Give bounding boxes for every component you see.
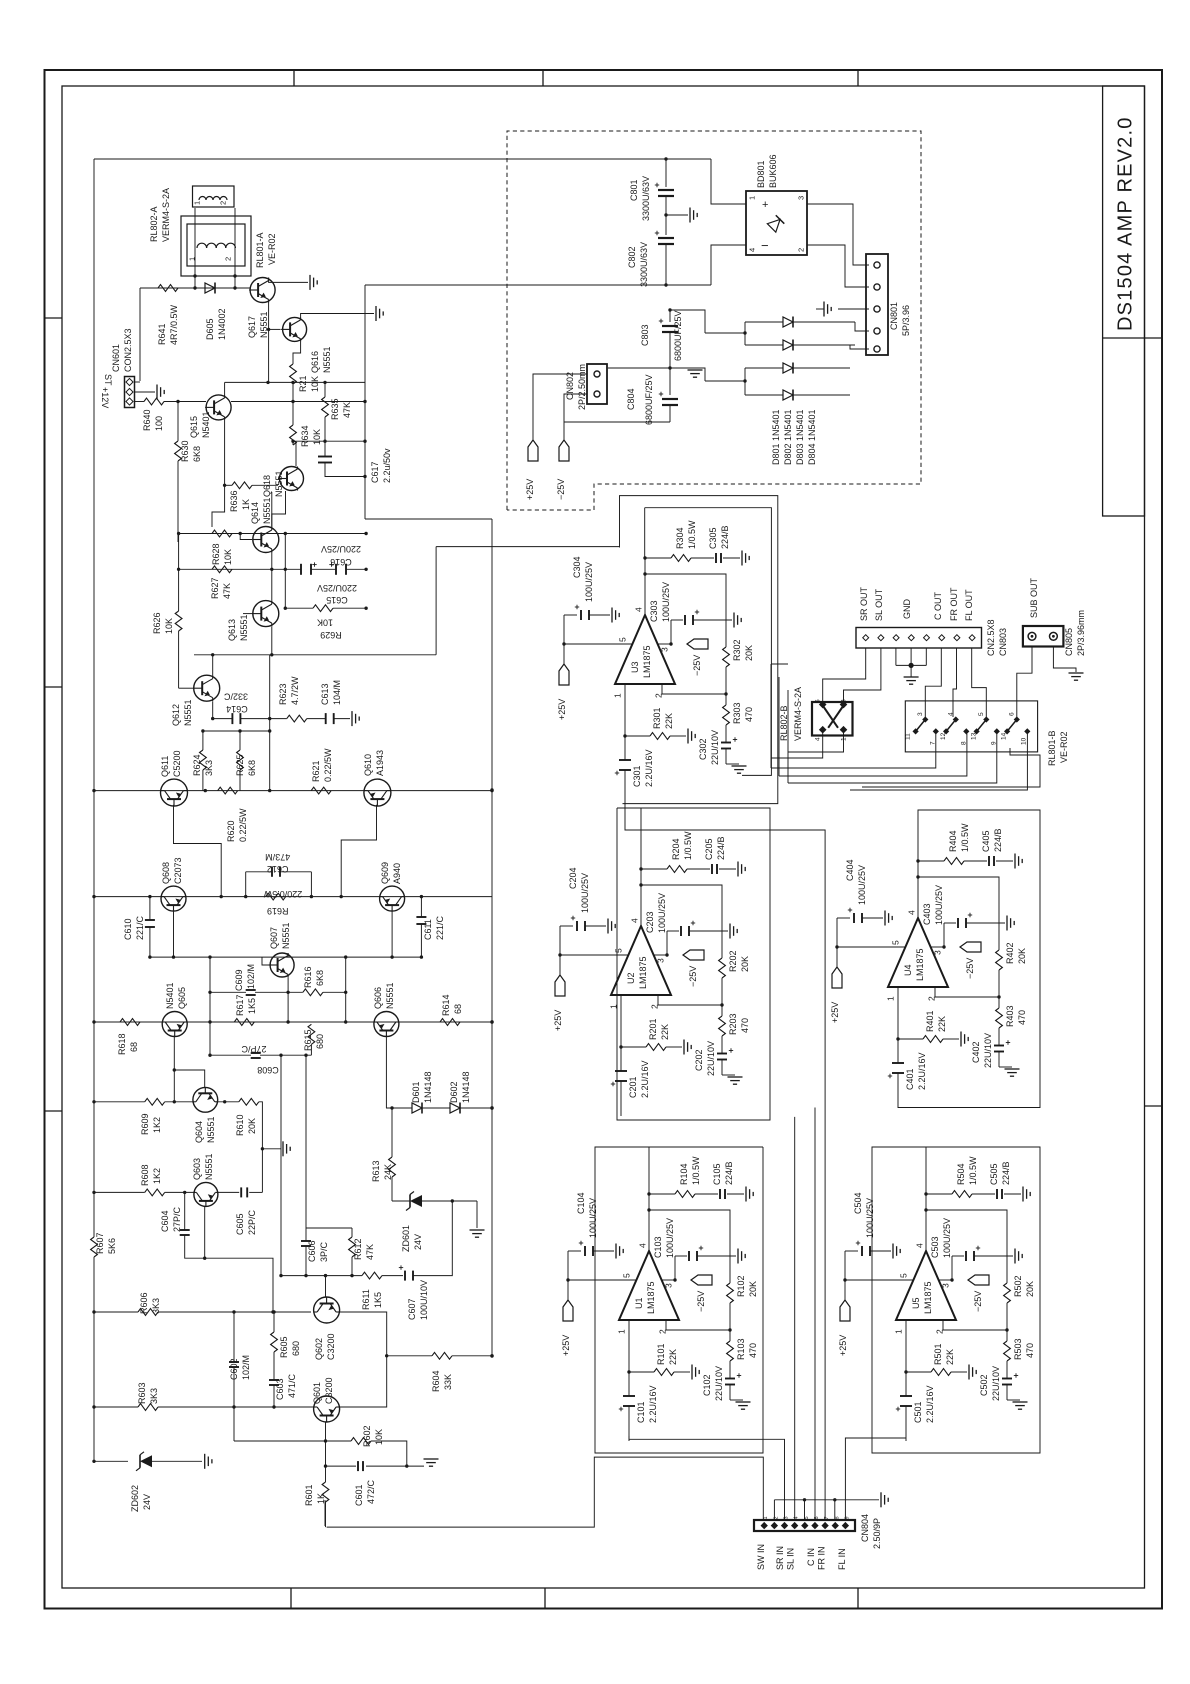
wire (269, 278, 308, 283)
resistor R629 (313, 605, 333, 612)
svg-text:5: 5 (891, 940, 901, 945)
svg-text:22U/10V: 22U/10V (983, 1033, 993, 1068)
diode D803 (745, 367, 783, 369)
wire (224, 382, 226, 395)
svg-text:3: 3 (933, 950, 943, 955)
wire loop U4 (898, 810, 1040, 1108)
wire (943, 1320, 1007, 1330)
svg-text:100U/10V: 100U/10V (419, 1280, 429, 1320)
wire (998, 997, 1000, 1008)
wire (674, 1256, 676, 1280)
wire (729, 1330, 731, 1341)
svg-text:C204: C204 (568, 867, 578, 889)
svg-text:47K: 47K (365, 1244, 375, 1260)
wire (371, 1441, 407, 1466)
wire (94, 1101, 145, 1103)
svg-text:C404: C404 (845, 859, 855, 881)
svg-text:C608: C608 (257, 1065, 279, 1075)
svg-text:2P/3.96mm: 2P/3.96mm (1076, 610, 1086, 656)
svg-text:473/M: 473/M (265, 852, 290, 862)
ground (1014, 854, 1016, 869)
wire (563, 644, 565, 664)
svg-text:CN803: CN803 (998, 628, 1008, 656)
wire (325, 1422, 327, 1441)
wire (966, 922, 1005, 924)
resistor R612 (349, 1237, 356, 1257)
wire (273, 1385, 275, 1407)
wire (593, 1250, 614, 1252)
connector CN804 (754, 1520, 855, 1531)
svg-text:LM1875: LM1875 (642, 645, 652, 678)
connector CN802 (587, 364, 607, 404)
wire (203, 730, 270, 732)
resistor R608 (145, 1189, 165, 1196)
svg-text:C603: C603 (275, 1378, 285, 1400)
ground (1013, 1401, 1028, 1403)
wire (174, 1070, 204, 1087)
svg-text:Q616: Q616 (310, 351, 320, 373)
svg-text:LM1875: LM1875 (638, 956, 648, 989)
svg-text:3: 3 (841, 699, 848, 703)
transistor Q617 (250, 278, 275, 303)
wire (964, 860, 987, 862)
wire (666, 1046, 682, 1048)
wire loop U3 outer (620, 496, 778, 804)
svg-text:VE-R02: VE-R02 (1059, 731, 1069, 763)
wire loop U1 (595, 1147, 763, 1453)
wire (324, 382, 326, 397)
svg-text:22K: 22K (668, 1349, 678, 1365)
svg-text:R304: R304 (675, 527, 685, 549)
svg-text:R104: R104 (679, 1163, 689, 1185)
left bus wire (93, 1257, 95, 1462)
wire (620, 1081, 622, 1116)
wire (721, 978, 723, 1005)
wire (837, 917, 850, 919)
svg-text:D601: D601 (411, 1081, 421, 1103)
resistor R607 (91, 1237, 98, 1257)
ground (737, 862, 739, 877)
diode D605 (205, 283, 215, 293)
resistor R602 (326, 1440, 352, 1442)
wire (807, 245, 869, 287)
capacitor C401 (892, 1062, 904, 1064)
transistor Q612 (194, 675, 220, 701)
resistor R603 (138, 1404, 158, 1411)
wire (644, 558, 646, 615)
wire (943, 1038, 959, 1040)
wire (629, 1371, 654, 1373)
svg-text:11: 11 (905, 733, 912, 740)
wire (608, 421, 670, 423)
svg-text:104/M: 104/M (332, 680, 342, 705)
wire (460, 1107, 492, 1109)
wire (807, 204, 869, 265)
svg-text:R404: R404 (948, 830, 958, 852)
svg-text:SL OUT: SL OUT (874, 588, 884, 621)
wire (259, 1102, 263, 1193)
svg-text:C604: C604 (160, 1210, 170, 1232)
svg-text:Q617: Q617 (247, 316, 257, 338)
svg-text:10K: 10K (374, 1429, 384, 1445)
op-amp U2 (611, 926, 671, 995)
wire (725, 749, 727, 765)
border tick top 2 (542, 70, 544, 86)
svg-text:+25V: +25V (830, 1002, 840, 1023)
svg-text:4: 4 (815, 737, 822, 741)
main rail wire (94, 790, 492, 792)
wire (567, 1280, 569, 1300)
svg-text:14: 14 (1001, 732, 1008, 740)
wire (721, 1005, 723, 1016)
resistor R619 (266, 893, 286, 900)
wire (620, 995, 622, 1047)
svg-text:6: 6 (1009, 712, 1016, 716)
wire (850, 734, 1027, 790)
wire (246, 871, 272, 873)
wire (744, 322, 746, 345)
wire (139, 288, 141, 381)
wire (1006, 1385, 1008, 1401)
svg-text:R619: R619 (267, 906, 289, 916)
terminal +25V (559, 664, 569, 685)
ground (156, 385, 158, 400)
svg-text:0.22/5W: 0.22/5W (238, 808, 248, 842)
capacitor C505 (996, 1189, 998, 1199)
svg-text:3300U/63V: 3300U/63V (639, 242, 649, 287)
wire (658, 995, 722, 1005)
svg-text:FL OUT: FL OUT (964, 589, 974, 621)
wire (391, 1108, 393, 1157)
wire (158, 1406, 314, 1408)
resistor R634 (290, 425, 297, 445)
capacitor C205 (711, 864, 713, 874)
wire (1017, 647, 1032, 718)
svg-text:D802 1N5401: D802 1N5401 (783, 409, 793, 465)
resistor R614 (440, 1019, 460, 1026)
svg-text:+25V: +25V (561, 1335, 571, 1356)
svg-text:10K: 10K (310, 376, 320, 392)
svg-text:0.22/5W: 0.22/5W (323, 748, 333, 782)
ground (683, 1040, 685, 1055)
svg-text:20K: 20K (1025, 1281, 1035, 1297)
svg-text:C202: C202 (694, 1049, 704, 1071)
wire (628, 1320, 630, 1372)
svg-text:N5551: N5551 (274, 470, 284, 497)
resistor R640 (144, 398, 164, 405)
wire (972, 648, 987, 717)
wire (209, 992, 211, 1022)
wire (240, 534, 252, 540)
svg-text:20K: 20K (744, 645, 754, 661)
wire (641, 885, 722, 958)
wire (568, 1279, 636, 1281)
svg-text:1: 1 (748, 196, 757, 200)
capacitor C608 (251, 1052, 261, 1054)
wire (210, 1054, 251, 1056)
svg-text:R623: R623 (278, 683, 288, 705)
wire (177, 461, 179, 542)
svg-text:LM1875: LM1875 (915, 948, 925, 981)
resistor R617 (234, 1019, 254, 1026)
wire (951, 1371, 967, 1373)
capacitor C104 (584, 1246, 586, 1256)
terminal -25V (559, 440, 569, 461)
wire (94, 1406, 138, 1408)
svg-text:D602: D602 (449, 1081, 459, 1103)
border tick top 1 (293, 70, 295, 86)
wire (926, 1210, 1007, 1283)
wire (943, 923, 945, 947)
capacitor C305 (715, 553, 717, 563)
svg-text:22K: 22K (937, 1016, 947, 1032)
wire (134, 381, 140, 383)
wire (662, 684, 726, 694)
wire (563, 615, 565, 644)
svg-text:3: 3 (941, 1283, 951, 1288)
wire (413, 1201, 452, 1276)
svg-text:GND: GND (902, 599, 912, 620)
border tick bottom 2 (544, 1588, 546, 1609)
wire (212, 485, 225, 527)
wire (325, 462, 365, 476)
ground (309, 275, 311, 290)
wire (306, 1227, 352, 1229)
svg-text:LM1875: LM1875 (923, 1281, 933, 1314)
wire (218, 1101, 239, 1103)
wire (210, 991, 246, 993)
capacitor C610 (145, 919, 155, 921)
border tick bottom 3 (857, 1588, 859, 1609)
wire (202, 770, 204, 791)
svg-text:C103: C103 (653, 1236, 663, 1258)
terminal +25V (840, 1300, 850, 1321)
wire (729, 1385, 731, 1401)
svg-text:2: 2 (224, 257, 233, 261)
wire (239, 770, 241, 791)
wire (295, 441, 297, 466)
svg-text:22U/10V: 22U/10V (710, 730, 720, 765)
svg-text:ZD601: ZD601 (401, 1225, 411, 1252)
svg-text:R634: R634 (300, 425, 310, 447)
svg-text:4: 4 (907, 910, 917, 915)
wire (687, 868, 710, 870)
svg-text:D804 1N5401: D804 1N5401 (807, 409, 817, 465)
wire (287, 953, 289, 957)
svg-text:5: 5 (618, 637, 628, 642)
wire (164, 401, 206, 403)
resistor R627 (212, 566, 232, 573)
wire (640, 869, 642, 926)
capacitor C302 (721, 742, 731, 744)
border tick right 1 (1145, 1105, 1163, 1107)
svg-text:R602: R602 (362, 1425, 372, 1447)
ground (1006, 916, 1008, 931)
resistor R604 (387, 1355, 432, 1357)
wire (345, 957, 347, 992)
svg-text:N5551: N5551 (183, 699, 193, 726)
wire (836, 947, 838, 967)
svg-text:1N4148: 1N4148 (423, 1071, 433, 1103)
svg-text:R401: R401 (925, 1010, 935, 1032)
wire (721, 1060, 723, 1076)
svg-text:R403: R403 (1005, 1005, 1015, 1027)
resistor R101 (654, 1369, 674, 1376)
wire (870, 1250, 891, 1252)
svg-text:R609: R609 (140, 1113, 150, 1135)
wire (1006, 1330, 1008, 1341)
transistor Q601 (314, 1396, 340, 1422)
svg-text:A1943: A1943 (375, 750, 385, 776)
wire (307, 718, 326, 720)
svg-text:C801: C801 (629, 179, 639, 201)
ground (736, 1401, 751, 1403)
svg-text:13: 13 (971, 732, 978, 740)
svg-text:102/M: 102/M (241, 1355, 251, 1380)
wire (1053, 647, 1076, 673)
svg-text:N5551: N5551 (259, 311, 269, 338)
wire (925, 1147, 927, 1194)
wire (838, 308, 869, 310)
svg-text:N5551: N5551 (262, 497, 272, 524)
wire (814, 1108, 816, 1521)
wire (204, 1206, 206, 1258)
svg-text:Q618: Q618 (262, 475, 272, 497)
svg-text:1K5: 1K5 (247, 998, 257, 1014)
svg-text:10K: 10K (223, 549, 233, 565)
svg-text:33K: 33K (443, 1374, 453, 1390)
resistor R630 (177, 402, 179, 442)
svg-text:5: 5 (899, 1273, 909, 1278)
wire (939, 1279, 952, 1281)
wire loop U2 (617, 808, 641, 869)
zener diode ZD602 (94, 1460, 128, 1462)
ground (615, 1244, 617, 1259)
svg-text:C401: C401 (905, 1068, 915, 1090)
resistor R103 (727, 1341, 734, 1361)
wire (845, 1250, 858, 1252)
capacitor C201 (615, 1070, 627, 1072)
terminal -25V (968, 1275, 989, 1285)
svg-text:VE-R02: VE-R02 (267, 233, 277, 265)
wire (301, 314, 374, 318)
svg-text:SW IN: SW IN (756, 1544, 766, 1570)
wire (260, 1054, 311, 1056)
terminal +25V (555, 975, 565, 996)
resistor R201 (646, 1044, 666, 1051)
svg-text:DS1504 AMP REV2.0: DS1504 AMP REV2.0 (1115, 116, 1137, 331)
ground (689, 208, 691, 223)
svg-text:R606: R606 (139, 1292, 149, 1314)
base rail wire (150, 956, 422, 958)
wire (231, 401, 365, 403)
wire (287, 977, 289, 992)
capacitor C614 (231, 713, 233, 724)
svg-text:100U/25V: 100U/25V (665, 1218, 675, 1258)
wire (365, 284, 711, 286)
connector CN803 (856, 628, 982, 649)
wire (209, 1022, 211, 1055)
svg-text:SR OUT: SR OUT (859, 586, 869, 621)
wire loop U5 (872, 1147, 1040, 1453)
svg-text:1: 1 (609, 1004, 619, 1009)
svg-text:6K8: 6K8 (315, 970, 325, 986)
svg-text:20K: 20K (247, 1118, 257, 1134)
svg-text:Q604: Q604 (194, 1121, 204, 1143)
wire (693, 619, 732, 621)
wire (723, 557, 740, 559)
wire (670, 310, 705, 333)
terminal -25V (691, 1275, 712, 1285)
transistor Q611 (161, 779, 188, 806)
ground (687, 729, 689, 744)
svg-text:1K2: 1K2 (152, 1168, 162, 1184)
wire (184, 1192, 186, 1230)
bridge rectifier BD801 (746, 191, 807, 255)
wire (910, 648, 912, 665)
svg-text:100U/25V: 100U/25V (934, 885, 944, 925)
wire (1006, 1303, 1008, 1330)
wire (351, 1228, 353, 1237)
svg-text:R610: R610 (235, 1114, 245, 1136)
wire (305, 1055, 307, 1228)
wire (697, 1255, 736, 1257)
svg-text:680: 680 (315, 1034, 325, 1049)
svg-text:3K3: 3K3 (149, 1388, 159, 1404)
ground (823, 302, 825, 317)
wire (711, 245, 746, 285)
wire (844, 648, 881, 704)
wire (953, 648, 957, 717)
svg-text:−25V: −25V (692, 655, 702, 676)
wire (292, 358, 294, 364)
svg-text:Q614: Q614 (250, 502, 260, 524)
svg-text:C502: C502 (979, 1374, 989, 1396)
svg-text:C IN: C IN (806, 1548, 816, 1566)
wire (287, 992, 289, 1022)
svg-text:C301: C301 (632, 765, 642, 787)
ground (375, 306, 377, 321)
svg-text:100U/25V: 100U/25V (584, 562, 594, 602)
ground (351, 711, 353, 726)
svg-text:224/B: 224/B (993, 828, 1003, 852)
svg-text:6K8: 6K8 (247, 760, 257, 776)
capacitor C301 (619, 759, 631, 761)
wire (788, 732, 844, 752)
svg-text:+25V: +25V (557, 699, 567, 720)
border tick left 1 (45, 317, 63, 319)
bus wire (491, 519, 493, 1356)
capacitor C804 (669, 368, 671, 395)
resistor R616 (303, 989, 323, 996)
wire (645, 574, 726, 647)
wire (213, 718, 233, 720)
svg-text:1N4148: 1N4148 (461, 1071, 471, 1103)
transistor Q603 (194, 1182, 218, 1206)
svg-text:C102: C102 (702, 1374, 712, 1396)
wire (327, 1457, 764, 1527)
svg-text:68: 68 (453, 1004, 463, 1014)
wire (194, 208, 196, 288)
relay RL801-A (181, 216, 251, 276)
wire (420, 897, 422, 917)
wire (334, 718, 350, 720)
svg-text:R605: R605 (279, 1336, 289, 1358)
collector rail wire (94, 896, 492, 898)
svg-text:4: 4 (638, 1243, 648, 1248)
resistor R606 (138, 1309, 158, 1316)
svg-text:U4: U4 (903, 964, 913, 976)
